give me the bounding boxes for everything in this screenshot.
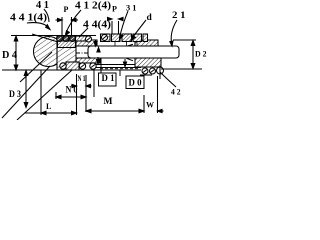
svg-text:3 1: 3 1 (126, 4, 137, 13)
svg-text:M: M (104, 97, 113, 107)
svg-text:d: d (147, 13, 153, 23)
svg-text:L: L (46, 102, 51, 111)
svg-text:P: P (64, 5, 69, 14)
svg-text:4 2: 4 2 (171, 87, 181, 97)
svg-text:4 4 1(4): 4 4 1(4) (10, 12, 47, 24)
svg-text:4 1: 4 1 (36, 0, 49, 11)
svg-text:N 0: N 0 (66, 85, 78, 95)
svg-text:P: P (112, 5, 117, 14)
svg-text:2 1: 2 1 (172, 11, 186, 21)
svg-text:D 4: D 4 (2, 50, 18, 61)
svg-text:D 1: D 1 (102, 73, 115, 83)
svg-text:N 1: N 1 (78, 73, 86, 83)
svg-text:D 2: D 2 (195, 49, 207, 59)
svg-text:W: W (146, 101, 154, 110)
svg-text:4 4(4): 4 4(4) (83, 19, 111, 31)
svg-text:D 3: D 3 (9, 89, 21, 99)
svg-text:4 1 2(4): 4 1 2(4) (75, 0, 111, 12)
svg-text:D 0: D 0 (129, 78, 142, 88)
